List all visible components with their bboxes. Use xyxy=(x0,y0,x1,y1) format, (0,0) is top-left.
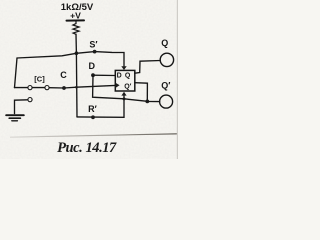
svg-text:C: C xyxy=(60,70,67,80)
U1 pin label D xyxy=(117,73,122,80)
junction resistor/top rail xyxy=(75,51,79,55)
supply rail bar xyxy=(67,19,85,21)
wire Q output to indicator xyxy=(135,61,160,74)
svg-text:S′: S′ xyxy=(89,40,97,50)
svg-text:D: D xyxy=(117,73,122,80)
svg-text:R′: R′ xyxy=(88,104,97,114)
label S' xyxy=(89,40,97,50)
wire to switch upper throw xyxy=(15,87,28,89)
wire top rail (S' net) xyxy=(17,52,124,66)
+V supply terminal xyxy=(70,11,81,21)
D flip-flop U1 xyxy=(115,70,135,91)
page rule under figure xyxy=(10,134,178,137)
switch lower throw contact xyxy=(28,98,32,102)
switch common contact xyxy=(45,86,49,90)
label R' xyxy=(88,104,97,114)
indicator lamp Q' xyxy=(160,95,173,108)
svg-text:D: D xyxy=(89,61,96,71)
node S' dot xyxy=(93,50,97,54)
svg-text:Q′: Q′ xyxy=(161,81,170,91)
indicator lamp Q xyxy=(160,53,173,66)
junction blob at clock crossing xyxy=(75,86,78,89)
wire junction to indicator Q' xyxy=(147,101,159,103)
wire Q' output xyxy=(135,83,148,102)
label [C] xyxy=(34,75,45,84)
wire D node to U1 D pin xyxy=(93,74,115,76)
ground xyxy=(6,114,24,116)
wire resistor to top rail xyxy=(75,34,77,53)
arrow into R' pin of U1 xyxy=(121,92,126,96)
label D xyxy=(89,61,96,71)
value label 1kΩ/5V xyxy=(61,2,94,13)
node C dot xyxy=(62,86,66,90)
arrow into S' pin of U1 xyxy=(121,66,126,70)
wire clock (C net) xyxy=(49,85,115,88)
junction blob at R' crossing xyxy=(123,97,126,100)
wire lower throw to ground xyxy=(15,100,28,114)
svg-text:Q′: Q′ xyxy=(124,83,131,90)
U1 pin label Q xyxy=(125,73,131,80)
svg-text:[C]: [C] xyxy=(34,75,45,84)
junction Q' feedback xyxy=(145,100,149,104)
caption Рис. 14.17 xyxy=(57,140,117,156)
wire D net down and right (to Q' feedback) xyxy=(93,75,148,101)
switch [C] upper throw contact xyxy=(28,86,32,90)
page right edge shading xyxy=(176,0,178,159)
label Q' xyxy=(161,81,170,91)
svg-text:Рис. 14.17: Рис. 14.17 xyxy=(57,140,117,156)
resistor R1 1kΩ zigzag xyxy=(73,22,79,35)
node D dot xyxy=(91,73,95,77)
U1 pin label Q' xyxy=(124,83,131,90)
label Q xyxy=(161,38,168,48)
svg-text:Q: Q xyxy=(125,73,131,80)
switch arm xyxy=(32,87,45,89)
U1 clock chevron xyxy=(116,83,120,88)
node R' dot xyxy=(91,115,95,119)
svg-text:+V: +V xyxy=(70,11,81,21)
wire bottom rail (R' net) xyxy=(77,96,124,118)
wire left vertical xyxy=(15,58,18,88)
label C xyxy=(60,70,67,80)
svg-text:Q: Q xyxy=(161,38,168,48)
wire +V net vertical down to bottom rail xyxy=(75,53,78,117)
